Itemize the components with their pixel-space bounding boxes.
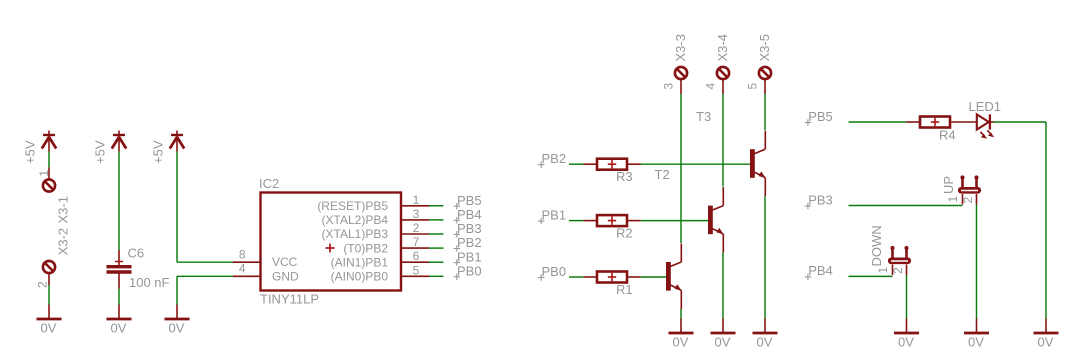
0V label (C6 column) <box>111 321 127 336</box>
pin number 1 <box>413 193 420 207</box>
svg-text:3: 3 <box>413 207 420 221</box>
pin number 3 of X3-3 <box>662 83 676 90</box>
resistor R2 <box>597 215 627 226</box>
svg-text:1: 1 <box>37 170 51 177</box>
svg-text:(XTAL1)PB3: (XTAL1)PB3 <box>322 227 389 241</box>
svg-text:PB4: PB4 <box>457 207 482 222</box>
wire IC pin to net PB5 <box>429 205 444 207</box>
net label PB0 (at IC) <box>454 263 482 280</box>
svg-text:0V: 0V <box>41 321 57 336</box>
ground symbol 0V (LED column) <box>1034 319 1059 334</box>
pin name (XTAL2)PB4 <box>322 213 389 227</box>
wire emitter to ground (X3-3 column) <box>680 309 682 319</box>
wire right rail down <box>1045 122 1047 319</box>
pin number 7 <box>413 235 420 249</box>
wire PB3 to S-UP <box>849 205 963 207</box>
label X3-4 <box>715 34 730 61</box>
svg-text:UP: UP <box>941 176 956 194</box>
IC2 pin 1 stub ((RESET)PB5) <box>401 205 429 207</box>
wire +5V to pad X3-1 <box>48 152 50 168</box>
resistor R3 left lead <box>584 163 598 165</box>
+5V net label <box>23 140 38 164</box>
wire R3 to T3 base <box>641 163 751 165</box>
svg-text:DOWN: DOWN <box>869 225 884 266</box>
label R1 <box>616 282 633 297</box>
label IC2 <box>259 176 279 191</box>
svg-text:8: 8 <box>239 248 246 262</box>
pin number 3 <box>413 207 420 221</box>
svg-text:(RESET)PB5: (RESET)PB5 <box>317 199 388 213</box>
resistor R1 left lead <box>584 276 598 278</box>
svg-text:3: 3 <box>662 83 676 90</box>
pin number 6 <box>413 249 420 263</box>
pin of pad X3-4 <box>722 79 724 94</box>
svg-text:100 nF: 100 nF <box>129 275 170 290</box>
resistor R3 <box>597 159 627 170</box>
wire LED1 to right rail <box>994 121 1047 123</box>
net label PB2 (driver) <box>538 151 566 168</box>
+5V net label (C6 column) <box>93 140 108 164</box>
svg-text:PB3: PB3 <box>808 192 833 207</box>
connector pad X3-5 <box>759 67 771 79</box>
svg-text:0V: 0V <box>757 335 773 350</box>
power +5V symbol (C6 column) <box>112 131 126 152</box>
connector pad X3-2 <box>43 261 55 273</box>
pin number 5 <box>413 263 420 277</box>
svg-text:PB1: PB1 <box>542 207 567 222</box>
label T2 <box>655 167 670 182</box>
wire IC pin to net PB2 <box>429 247 444 249</box>
pin number 2 of X3-2 <box>36 281 50 288</box>
svg-text:X3-1: X3-1 <box>56 196 71 223</box>
wire C6 to ground <box>118 289 120 305</box>
svg-text:X3-2: X3-2 <box>56 228 71 255</box>
svg-text:1: 1 <box>413 193 420 207</box>
label LED1 <box>969 99 1002 114</box>
resistor R1 <box>597 272 627 283</box>
label R3 <box>616 169 633 184</box>
wire emitter to ground (X3-4 column) <box>722 253 724 319</box>
wire GND down to ground <box>176 276 178 304</box>
pin name (RESET)PB5 <box>317 199 388 213</box>
pin number 4 of X3-4 <box>704 83 718 90</box>
IC2 box <box>261 193 402 291</box>
pin number 2 <box>413 221 420 235</box>
svg-text:4: 4 <box>239 262 246 276</box>
svg-text:GND: GND <box>272 269 299 283</box>
wire IC pin to net PB1 <box>429 261 444 263</box>
svg-text:7: 7 <box>413 235 420 249</box>
svg-text:0V: 0V <box>111 321 127 336</box>
pin name (T0)PB2 <box>343 241 388 255</box>
svg-text:0V: 0V <box>673 335 689 350</box>
net label PB2 (at IC) <box>454 235 482 252</box>
wire +5V down to VCC <box>176 152 178 263</box>
power +5V symbol (IC supply) <box>170 131 184 152</box>
transistor T1 <box>666 244 681 310</box>
svg-text:PB1: PB1 <box>457 249 482 264</box>
wire PB2 to R2 <box>569 220 584 222</box>
net label PB5 (at IC) <box>454 193 482 210</box>
wire X3-3 to collector <box>680 94 682 243</box>
svg-text:IC2: IC2 <box>259 176 279 191</box>
pin of pad X3-5 <box>764 79 766 94</box>
net label PB4 (at IC) <box>454 207 482 224</box>
pin number 2 of S-DOWN <box>891 267 905 274</box>
svg-text:LED1: LED1 <box>969 99 1002 114</box>
svg-text:R1: R1 <box>616 282 633 297</box>
power +5V symbol (X3 supply) <box>42 131 56 152</box>
svg-text:PB2: PB2 <box>457 235 482 250</box>
IC2 pin 7 stub ((T0)PB2) <box>401 247 429 249</box>
connector pad X3-3 <box>675 67 687 79</box>
label X3-3 <box>673 34 688 61</box>
svg-text:TINY11LP: TINY11LP <box>260 292 319 307</box>
capacitor C6 top pin <box>118 250 120 265</box>
svg-text:2: 2 <box>413 221 420 235</box>
LED1 light arrows <box>980 130 994 139</box>
net label PB4 (output) <box>805 263 833 280</box>
pin name (XTAL1)PB3 <box>322 227 389 241</box>
wire from IC GND pin <box>177 275 233 277</box>
label T3 <box>696 109 711 124</box>
svg-text:0V: 0V <box>169 321 185 336</box>
label C6 <box>128 246 145 261</box>
svg-text:0V: 0V <box>715 335 731 350</box>
ground symbol 0V (X3-5 column) <box>753 319 778 334</box>
wire emitter to ground (X3-5 column) <box>764 196 766 318</box>
value 100 nF <box>129 275 170 290</box>
IC2 pin 4 stub (GND) <box>233 275 261 277</box>
ground symbol 0V (UP column) <box>964 319 989 334</box>
svg-text:2: 2 <box>891 267 905 274</box>
net label PB5 (output) <box>805 109 833 126</box>
resistor R2 left lead <box>584 220 598 222</box>
pin of pad X3-2 <box>48 273 50 285</box>
wire PB4 to S-DOWN <box>849 275 893 277</box>
svg-text:+5V: +5V <box>93 140 108 164</box>
wire X3-2 to ground <box>48 285 50 305</box>
transistor T2 <box>708 187 723 253</box>
capacitor C6 origin cross <box>115 261 123 263</box>
svg-text:PB3: PB3 <box>457 221 482 236</box>
svg-text:0V: 0V <box>1038 335 1054 350</box>
IC2 pin 2 stub ((XTAL1)PB3) <box>401 233 429 235</box>
svg-text:1: 1 <box>876 267 890 274</box>
svg-text:T3: T3 <box>696 109 711 124</box>
switch S-UP <box>958 175 981 204</box>
pin number 1 of S-UP <box>946 196 960 203</box>
ground symbol 0V (IC column) <box>165 305 190 320</box>
svg-text:5: 5 <box>746 83 760 90</box>
ground symbol 0V (X3 column) <box>37 305 62 320</box>
svg-text:R2: R2 <box>616 226 633 241</box>
svg-text:R3: R3 <box>616 169 633 184</box>
0V label (DOWN column) <box>898 335 914 350</box>
wire R1 to T1 base <box>641 276 667 278</box>
resistor R2 right lead <box>627 220 641 222</box>
pin name VCC <box>272 255 298 269</box>
0V label (X3 column) <box>41 321 57 336</box>
svg-text:PB5: PB5 <box>808 109 833 124</box>
resistor R4 left lead <box>906 121 920 123</box>
IC2 pin 5 stub ((AIN0)PB0) <box>401 275 429 277</box>
0V label (X3-4 column) <box>715 335 731 350</box>
svg-text:PB0: PB0 <box>457 263 482 278</box>
svg-text:2: 2 <box>961 197 975 204</box>
pin of pad X3-3 <box>680 79 682 94</box>
svg-text:(T0)PB2: (T0)PB2 <box>343 241 388 255</box>
wire PB5 to R4 <box>849 121 907 123</box>
0V label (UP column) <box>968 335 984 350</box>
label X3-5 <box>757 34 772 61</box>
resistor R3 right lead <box>627 163 641 165</box>
svg-text:+5V: +5V <box>23 140 38 164</box>
svg-text:1: 1 <box>946 196 960 203</box>
net label PB0 (driver) <box>538 264 566 281</box>
pin number 2 of S-UP <box>961 197 975 204</box>
svg-text:X3-3: X3-3 <box>673 34 688 61</box>
svg-text:0V: 0V <box>968 335 984 350</box>
pin name GND <box>272 269 299 283</box>
wire X3-4 to collector <box>722 94 724 187</box>
svg-text:R4: R4 <box>939 128 956 143</box>
pin of pad X3-1 <box>48 168 50 180</box>
wire X3-5 to collector <box>764 94 766 130</box>
pin number 1 of S-DOWN <box>876 267 890 274</box>
pin number 5 of X3-5 <box>746 83 760 90</box>
connector pad X3-4 <box>717 67 729 79</box>
0V label (IC column) <box>169 321 185 336</box>
svg-text:(AIN0)PB0: (AIN0)PB0 <box>331 270 389 284</box>
svg-text:PB2: PB2 <box>542 151 567 166</box>
label DOWN <box>869 225 884 266</box>
pin number 4 <box>239 262 246 276</box>
wire PB2 to R3 <box>569 163 584 165</box>
svg-text:C6: C6 <box>128 246 145 261</box>
svg-text:(XTAL2)PB4: (XTAL2)PB4 <box>322 213 389 227</box>
svg-text:2: 2 <box>36 281 50 288</box>
label X3-1 <box>56 196 71 223</box>
wire IC pin to net PB3 <box>429 233 444 235</box>
0V label (X3-5 column) <box>757 335 773 350</box>
switch S-DOWN <box>888 246 911 275</box>
label R2 <box>616 226 633 241</box>
svg-text:4: 4 <box>704 83 718 90</box>
ground symbol 0V (X3-3 column) <box>669 319 694 334</box>
svg-text:(AIN1)PB1: (AIN1)PB1 <box>331 255 389 269</box>
svg-text:5: 5 <box>413 263 420 277</box>
label R4 <box>939 128 956 143</box>
IC2 pin 6 stub ((AIN1)PB1) <box>401 261 429 263</box>
capacitor C6 bottom pin <box>118 274 120 289</box>
0V label (LED column) <box>1038 335 1054 350</box>
wire +5V to C6 <box>118 152 120 251</box>
LED LED1 <box>977 114 994 129</box>
svg-text:6: 6 <box>413 249 420 263</box>
pin name (AIN0)PB0 <box>331 270 389 284</box>
label UP <box>941 176 956 194</box>
ground symbol 0V (DOWN column) <box>894 319 919 334</box>
wire R2 to T2 base <box>641 220 709 222</box>
label X3-2 <box>56 228 71 255</box>
+5V net label (IC supply) <box>151 140 166 164</box>
capacitor C6 plates <box>107 267 132 272</box>
value TINY11LP <box>260 292 319 307</box>
pin name (AIN1)PB1 <box>331 255 389 269</box>
resistor R4 right lead <box>950 121 977 123</box>
net label PB3 (output) <box>805 192 833 209</box>
0V label (X3-3 column) <box>673 335 689 350</box>
svg-text:T2: T2 <box>655 167 670 182</box>
resistor R1 right lead <box>627 276 641 278</box>
wire IC pin to net PB4 <box>429 219 444 221</box>
net label PB1 (at IC) <box>454 249 482 266</box>
wire PB1 to R1 <box>569 276 584 278</box>
ground symbol 0V (X3-4 column) <box>711 319 736 334</box>
IC2 origin cross <box>326 244 335 253</box>
svg-text:PB0: PB0 <box>542 264 567 279</box>
connector pad X3-1 <box>43 179 55 191</box>
svg-text:+5V: +5V <box>151 140 166 164</box>
IC2 pin 8 stub (VCC) <box>233 261 261 263</box>
svg-text:VCC: VCC <box>272 255 298 269</box>
svg-text:PB5: PB5 <box>457 193 482 208</box>
pin number 8 <box>239 248 246 262</box>
svg-text:X3-4: X3-4 <box>715 34 730 61</box>
transistor T3 <box>750 131 765 197</box>
svg-text:X3-5: X3-5 <box>757 34 772 61</box>
IC2 pin 3 stub ((XTAL2)PB4) <box>401 219 429 221</box>
wire S-DOWN to ground <box>906 275 908 319</box>
wire to IC VCC pin <box>177 261 233 263</box>
svg-text:0V: 0V <box>898 335 914 350</box>
svg-text:PB4: PB4 <box>808 263 833 278</box>
wire S-UP to ground <box>976 205 978 319</box>
resistor R4 <box>920 117 950 128</box>
wire IC pin to net PB0 <box>429 275 444 277</box>
pin number 1 of X3-1 <box>37 170 51 177</box>
ground symbol 0V (C6 column) <box>107 305 132 320</box>
net label PB1 (driver) <box>538 207 566 224</box>
net label PB3 (at IC) <box>454 221 482 238</box>
